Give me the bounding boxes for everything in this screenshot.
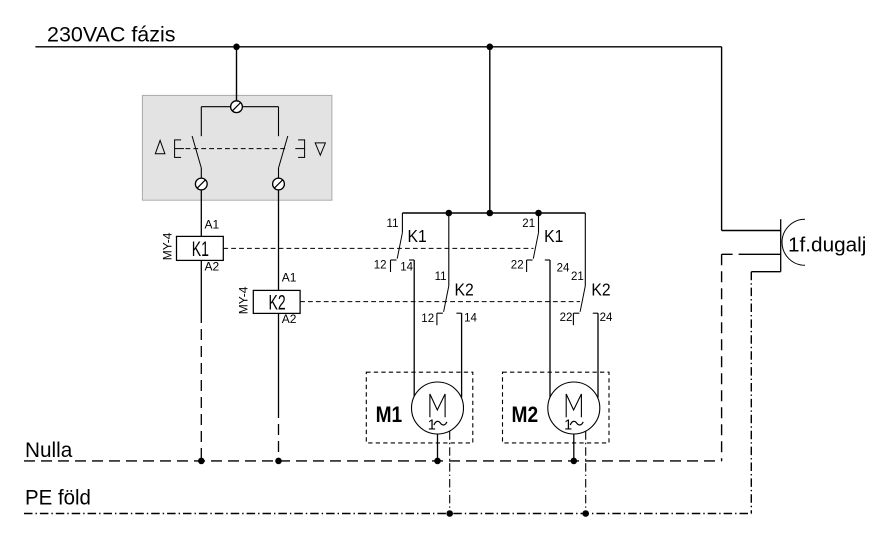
svg-text:Nulla: Nulla	[25, 438, 72, 462]
svg-text:K1: K1	[408, 226, 427, 246]
svg-text:22: 22	[560, 312, 573, 324]
svg-text:K1: K1	[544, 226, 563, 246]
svg-text:A1: A1	[282, 271, 297, 285]
svg-text:M1: M1	[376, 402, 403, 427]
svg-text:M2: M2	[512, 402, 539, 427]
svg-text:230VAC fázis: 230VAC fázis	[47, 23, 176, 47]
svg-text:1: 1	[428, 418, 436, 434]
svg-text:K2: K2	[591, 279, 610, 299]
svg-text:14: 14	[464, 313, 477, 325]
svg-text:A2: A2	[282, 312, 297, 326]
svg-text:1f.dugalj: 1f.dugalj	[788, 235, 866, 257]
svg-text:21: 21	[522, 218, 535, 230]
svg-text:MY-4: MY-4	[160, 232, 174, 260]
svg-text:MY-4: MY-4	[237, 286, 251, 314]
svg-text:24: 24	[600, 312, 613, 324]
svg-text:1: 1	[564, 418, 572, 434]
svg-text:14: 14	[400, 262, 413, 274]
svg-text:21: 21	[571, 271, 584, 283]
svg-text:12: 12	[374, 260, 387, 272]
svg-text:K2: K2	[455, 279, 474, 299]
svg-text:PE föld: PE föld	[25, 486, 91, 510]
svg-text:A2: A2	[205, 260, 220, 274]
svg-text:11: 11	[435, 271, 447, 283]
svg-text:11: 11	[387, 218, 399, 230]
svg-text:K1: K1	[192, 238, 209, 261]
svg-text:24: 24	[557, 262, 570, 274]
svg-text:22: 22	[511, 259, 524, 271]
svg-text:A1: A1	[205, 217, 220, 231]
svg-text:12: 12	[421, 313, 434, 325]
